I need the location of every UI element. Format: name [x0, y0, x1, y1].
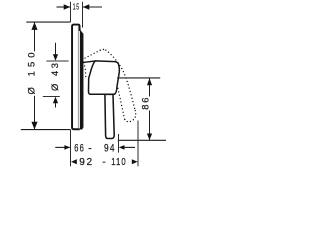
dim 66-94: right extension line: [118, 134, 120, 153]
dim 86: top arrow: [147, 78, 152, 85]
dim 86: dimension line upper: [149, 78, 151, 96]
svg-text:94: 94: [104, 143, 116, 155]
dim 15: left leader: [57, 6, 70, 8]
escutcheon plate outline (rear edge, top, bottom): [72, 25, 80, 130]
dim D150: dimension line upper: [34, 22, 36, 51]
plate mid contour line: [77, 26, 79, 129]
hub bottom edge (over lever): [90, 93, 116, 95]
dim 15: left arrow: [64, 4, 70, 9]
handle hub body: [88, 61, 119, 94]
svg-text:-: -: [102, 157, 105, 168]
dim D43: lower arrow (pointing up): [53, 97, 58, 104]
dim 66-94: right arrow: [119, 145, 125, 150]
dim D43: lower tail line: [55, 103, 57, 108]
dim 15: right arrow: [83, 4, 90, 9]
dim 66-94: right leader: [124, 146, 135, 148]
dim D150: top extension line: [26, 21, 70, 23]
dim D43: top tick: [46, 60, 68, 62]
wall plane extension line (bottom segment): [70, 130, 72, 167]
dim 86: bottom extension line: [118, 139, 166, 141]
svg-text:66: 66: [74, 143, 85, 155]
dim 86: top extension line: [117, 77, 160, 79]
dotted lever rear edge: [117, 84, 125, 120]
dim D43: upper tail line: [55, 43, 57, 55]
dim D43: upper arrow (pointing down): [53, 54, 58, 61]
dotted handle rear edge near plate: [84, 63, 86, 77]
dim D150: bottom extension line: [21, 129, 71, 131]
dim 92-110: right extension line: [137, 121, 139, 167]
dim 66-94: left leader: [55, 146, 70, 148]
dotted handle rear upper edge: [84, 50, 101, 59]
svg-text:15: 15: [73, 2, 80, 12]
svg-text:86: 86: [140, 98, 151, 110]
svg-text:110: 110: [111, 157, 126, 168]
lever handle (closed, pointing down): [105, 94, 114, 138]
dim 92-110: left arrow: [71, 159, 77, 164]
dim D150: dimension line lower: [34, 96, 36, 130]
dim 86: dimension line lower: [149, 111, 151, 141]
dim D43: bottom tick: [43, 96, 60, 98]
dim 15: right extension line: [82, 2, 84, 28]
plate front cover band: [80, 30, 84, 130]
dim 15: right leader: [83, 6, 102, 8]
dim 66-94: left arrow: [64, 145, 70, 150]
dim 86: bottom arrow: [147, 134, 152, 141]
dotted lever tip arc: [125, 111, 136, 122]
svg-text:-: -: [88, 143, 92, 155]
dotted lever front edge (open position): [106, 50, 135, 110]
dim D150: top arrow: [31, 22, 37, 30]
dim 92-110: right arrow: [132, 159, 138, 164]
handle neck top line to plate: [83, 61, 95, 62]
svg-text:92: 92: [79, 157, 93, 168]
dim D150: bottom arrow: [31, 122, 37, 130]
wall plane extension line (top segment): [70, 2, 72, 22]
dotted handle (open position) rear cap apex: [100, 48, 106, 51]
